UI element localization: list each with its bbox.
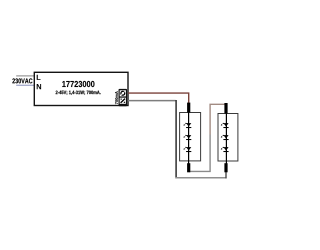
pin label L — [37, 75, 41, 80]
LED D2 — [184, 135, 192, 140]
pin label N — [37, 84, 41, 89]
LED D5 — [221, 135, 229, 140]
module 2 terminal bottom — [224, 163, 227, 172]
wire stub module2 bottom — [225, 172, 227, 179]
terminal symbol minus (cross) — [121, 99, 126, 104]
terminal symbol plus (circle) — [121, 91, 125, 95]
wire L input (grey) — [16, 75, 34, 77]
LED module 2 — [218, 114, 238, 164]
label 700mA (rotated) — [115, 91, 118, 104]
module 2 terminal top — [224, 103, 227, 113]
LED D6 — [221, 147, 229, 152]
wire module1 to module2 (light red upper part) — [210, 104, 226, 134]
wire return bottom horizontal — [175, 177, 226, 179]
wire return vertical (dark) — [175, 100, 177, 178]
wire module1 to module2 (grey lower part) — [189, 135, 210, 172]
LED D3 — [184, 147, 192, 152]
LED D1 — [184, 123, 192, 128]
module 1 terminal bottom — [187, 163, 190, 172]
LED module 1 — [180, 113, 201, 164]
wire + output (dark red) — [128, 93, 189, 103]
wire N input (blue) — [16, 84, 34, 86]
label 230VAC — [12, 78, 32, 83]
LED driver U1 box 17723000 — [34, 72, 128, 105]
output terminal block — [119, 89, 128, 106]
value label ratings — [56, 91, 101, 95]
module 1 terminal top — [187, 103, 190, 113]
wire - output (grey) — [128, 100, 176, 102]
value label 17723000 — [62, 81, 94, 87]
LED D4 — [221, 123, 229, 128]
